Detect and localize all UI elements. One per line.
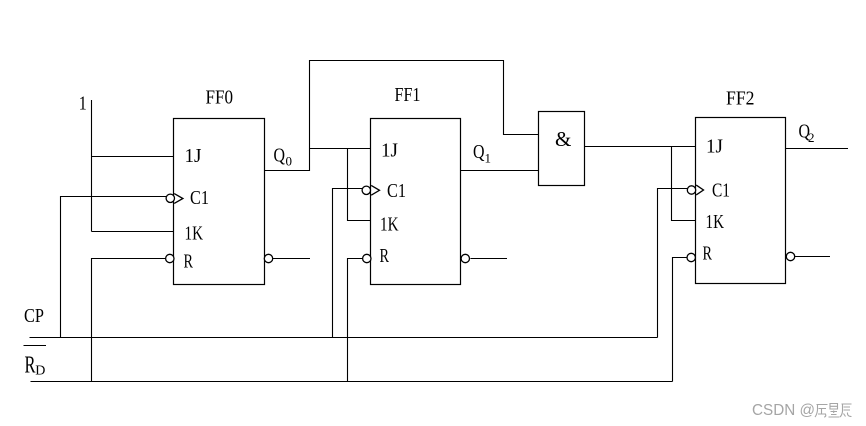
svg-text:1J: 1J	[381, 140, 398, 162]
svg-text:&: &	[555, 127, 571, 151]
svg-text:CP: CP	[24, 305, 44, 327]
svg-text:Q: Q	[274, 145, 286, 167]
svg-text:FF0: FF0	[206, 87, 234, 109]
svg-text:1J: 1J	[706, 136, 723, 158]
svg-text:1: 1	[485, 151, 492, 166]
svg-text:0: 0	[286, 154, 293, 169]
svg-text:FF1: FF1	[395, 84, 421, 106]
svg-text:1K: 1K	[185, 223, 204, 245]
svg-text:D: D	[35, 363, 45, 378]
svg-text:1J: 1J	[185, 145, 202, 167]
svg-text:C1: C1	[190, 187, 209, 209]
svg-text:R: R	[380, 245, 390, 267]
svg-text:C1: C1	[712, 180, 730, 202]
svg-text:R: R	[184, 251, 194, 273]
svg-text:1K: 1K	[706, 211, 725, 233]
svg-text:2: 2	[808, 130, 815, 145]
svg-text:R: R	[703, 243, 713, 265]
svg-text:C1: C1	[387, 180, 406, 202]
svg-text:1K: 1K	[380, 214, 399, 236]
svg-text:FF2: FF2	[726, 88, 755, 110]
svg-text:1: 1	[79, 93, 87, 115]
svg-text:Q: Q	[473, 141, 485, 163]
svg-text:R: R	[25, 352, 36, 378]
svg-text:CSDN @: CSDN @	[752, 402, 815, 419]
